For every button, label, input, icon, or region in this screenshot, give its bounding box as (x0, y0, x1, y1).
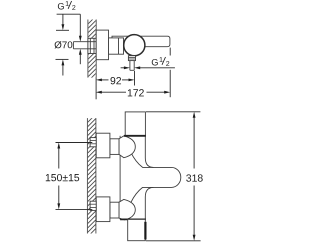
extension line at outlet (134, 71, 136, 86)
lower extension line (56, 208, 93, 210)
supply stub pipe (top view) (73, 42, 96, 49)
bottom cap (128, 219, 146, 240)
thick separation line top (124, 135, 146, 137)
arrows (193, 112, 196, 118)
valve body circle (top view) (124, 35, 145, 56)
body column (120, 136, 145, 220)
wall face extension line (95, 78, 97, 100)
172 dimension (96, 48, 170, 98)
body right edge with fillets into lever (145, 136, 153, 220)
lever tongue (elevation) (131, 152, 181, 202)
O70 lower extension line (56, 58, 69, 60)
O70 lower arrow (62, 59, 65, 75)
upper union nut (110, 139, 119, 155)
dimension line segments (101, 91, 126, 93)
92 dimension (96, 71, 135, 99)
dimension line segments (101, 79, 109, 81)
upper extension line (56, 142, 93, 144)
G 1/2 label top-left (58, 1, 76, 10)
G1/2 leader to stub pipe: lower arrow (79, 49, 82, 64)
in-wall union box (top view) (88, 38, 96, 53)
lower escutcheon (96, 197, 110, 222)
arrows (57, 143, 60, 149)
wall hatch band (bottom view) (84, 110, 100, 240)
outlet leader right arrow with underline (134, 66, 175, 69)
arrows (96, 79, 102, 82)
connecting cylinder (top view) (109, 38, 124, 54)
lower union nut (110, 202, 119, 218)
O70 dimension text (55, 41, 73, 48)
G1/2 label underline (57, 13, 81, 15)
G1/2 leader to stub pipe: upper arrow (79, 14, 82, 42)
dimension line (193, 117, 195, 169)
arrows (96, 91, 102, 94)
G 1/2 label (outlet) (152, 57, 170, 66)
O70 upper extension line (56, 29, 69, 31)
cylinder joint line (118, 38, 120, 54)
top cap (125, 112, 145, 136)
O70 upper arrow (62, 14, 65, 30)
lever bar (top view) (112, 36, 170, 47)
150 +/- 15 dimension (46, 143, 93, 210)
outlet collar with ribs (top view) (128, 56, 135, 61)
lower in-wall hex nut (90, 201, 96, 210)
outlet pipe G1/2 (top view) (130, 61, 134, 71)
wall hatch band (top view) (84, 12, 100, 90)
upper union boss dome (119, 136, 135, 158)
upper escutcheon (96, 133, 110, 158)
extension line from lever tip (169, 48, 171, 56)
lower union boss dome (119, 199, 135, 219)
thick separation line bottom (120, 218, 146, 220)
top extension line (146, 111, 200, 113)
bottom extension line (146, 240, 201, 242)
318 dimension (146, 112, 203, 241)
escutcheon (top view) (96, 30, 108, 60)
upper in-wall hex nut (90, 138, 96, 147)
dimension line (58, 148, 60, 169)
dark knob edge (144, 222, 146, 240)
outlet leader left arrow (121, 66, 130, 69)
